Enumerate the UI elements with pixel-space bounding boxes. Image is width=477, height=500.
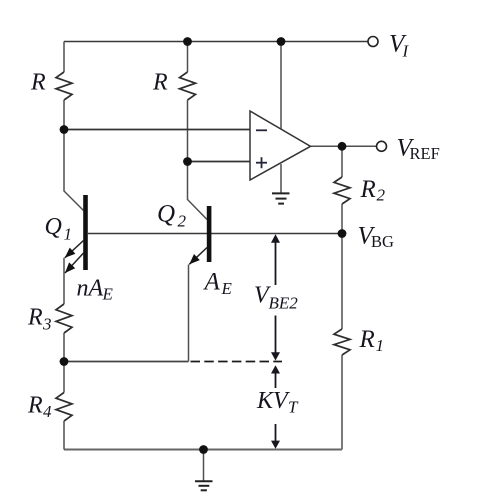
svg-text:Q: Q (45, 214, 62, 240)
svg-text:R: R (359, 326, 375, 353)
svg-text:R: R (27, 305, 43, 331)
svg-text:R: R (27, 393, 43, 419)
svg-text:1: 1 (376, 336, 385, 355)
svg-text:3: 3 (42, 315, 52, 334)
svg-text:nA: nA (77, 276, 104, 302)
svg-text:BG: BG (371, 232, 394, 251)
svg-text:R: R (30, 70, 46, 96)
svg-text:2: 2 (178, 212, 187, 231)
svg-text:Q: Q (157, 201, 175, 228)
svg-text:REF: REF (410, 144, 440, 163)
svg-text:R: R (360, 176, 376, 203)
svg-text:R: R (152, 70, 168, 96)
svg-text:E: E (221, 279, 233, 298)
svg-text:4: 4 (43, 402, 52, 421)
svg-text:E: E (102, 285, 114, 304)
svg-text:BE2: BE2 (269, 294, 299, 313)
svg-text:2: 2 (377, 186, 386, 205)
svg-text:1: 1 (64, 225, 73, 244)
svg-text:T: T (288, 398, 299, 417)
svg-text:A: A (203, 269, 221, 296)
svg-text:KV: KV (256, 388, 290, 414)
